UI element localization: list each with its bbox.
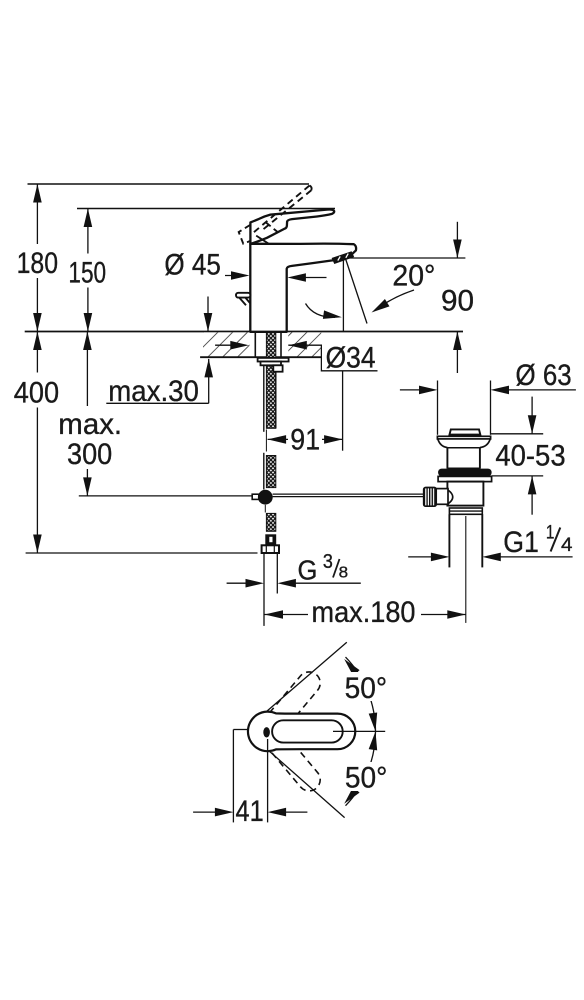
svg-text:G: G bbox=[298, 554, 318, 585]
pop-up horizontal rod to drain bbox=[273, 493, 424, 495]
dimension 41 extension line left bbox=[232, 730, 234, 823]
svg-text:300: 300 bbox=[67, 438, 112, 471]
hose centerline below ball bbox=[264, 505, 266, 513]
reference line at hose end (400) bbox=[26, 552, 258, 554]
label d34 bbox=[322, 344, 378, 369]
hose centerline at break bbox=[265, 430, 267, 452]
dimension 90 upper segment bbox=[453, 222, 462, 258]
label 50deg upper bbox=[341, 672, 391, 701]
deck top line bbox=[25, 331, 463, 333]
svg-text:50°: 50° bbox=[345, 762, 388, 795]
pop-up pull rod knob bbox=[236, 293, 250, 298]
dimension max.180 bbox=[265, 610, 466, 619]
drain flange top bbox=[437, 436, 490, 439]
dashed block edge bbox=[266, 223, 280, 235]
dimension 40-53 upper arrow bbox=[528, 397, 537, 434]
faucet body and spout bbox=[250, 244, 356, 332]
dimension 41 arrows bbox=[193, 808, 307, 817]
top view: dashed handle position lower bbox=[262, 727, 324, 795]
drain tailpipe right bbox=[481, 514, 483, 567]
dashed lever tip bbox=[310, 186, 312, 191]
dimension 41 extension line right bbox=[267, 739, 269, 822]
extension line from d34 label to 91 dimension bbox=[342, 371, 344, 451]
angle arc with arrow bbox=[306, 304, 343, 322]
hose nut bbox=[262, 545, 279, 553]
dimension d34 left arrow bbox=[215, 341, 249, 350]
top view: 50deg line upper bbox=[267, 642, 347, 711]
svg-text:180: 180 bbox=[17, 247, 58, 280]
dimension d63 arrows bbox=[400, 386, 576, 395]
drain: d63 extension line right bbox=[490, 381, 492, 435]
hose bottom braid segment bbox=[266, 513, 275, 531]
dimension d34 right arrow and leader bbox=[288, 341, 377, 371]
drain flange taper right bbox=[480, 439, 490, 448]
mounting nut step bbox=[261, 362, 282, 366]
hose thread right / extension line bbox=[276, 553, 278, 594]
40-53 extension line lower bbox=[492, 475, 544, 477]
top view: centerline right segment bbox=[333, 730, 385, 732]
dimension max.30 leader below deck bbox=[106, 359, 213, 403]
svg-text:90: 90 bbox=[441, 285, 474, 318]
deck hatch right bbox=[288, 332, 321, 357]
drain knob collar bbox=[436, 489, 448, 505]
drain ball housing bulge bbox=[448, 490, 453, 504]
vertical spout reach line bbox=[342, 260, 344, 331]
dimension d45 left arrow bbox=[225, 271, 250, 280]
hose lower segment braid bbox=[266, 456, 275, 488]
wire: top reference line (180) bbox=[28, 183, 310, 185]
dimension 180: vertical line with arrows bbox=[33, 184, 42, 332]
drain seal plate bbox=[438, 476, 492, 481]
hose tube line right in hole bbox=[280, 332, 282, 358]
dimension 91 bbox=[268, 435, 343, 444]
deck bottom line bbox=[200, 356, 321, 358]
mounting tab bbox=[273, 365, 282, 371]
dimension G1 1/4 arrows bbox=[408, 553, 572, 562]
svg-text:max.30: max.30 bbox=[108, 375, 199, 408]
shank outer line left below deck bbox=[263, 357, 265, 432]
hose lower segment left line bbox=[263, 453, 265, 490]
svg-text:91: 91 bbox=[290, 424, 320, 457]
svg-text:8: 8 bbox=[339, 564, 349, 581]
spout outlet reference line bbox=[349, 257, 466, 259]
top view: 50deg line lower bbox=[268, 750, 345, 818]
drain bottom band bbox=[449, 508, 482, 514]
lever raised position (dashed) lower edge bbox=[263, 190, 311, 229]
supply hose braid column bbox=[266, 332, 275, 429]
top view: upper angle arc bbox=[341, 656, 380, 732]
svg-text:G1: G1 bbox=[503, 526, 539, 559]
svg-text:max.180: max.180 bbox=[312, 596, 416, 629]
wire: second reference line (150) bbox=[77, 208, 335, 210]
hose end fitting bbox=[265, 534, 276, 544]
dimension max.30 arrow above deck bbox=[204, 297, 213, 332]
svg-text:400: 400 bbox=[14, 377, 59, 410]
shank outer line right below deck bbox=[275, 357, 277, 428]
top view: pivot dot bbox=[263, 727, 270, 737]
svg-text:3: 3 bbox=[323, 551, 333, 573]
svg-text:Ø34: Ø34 bbox=[326, 341, 376, 374]
label 50deg lower bbox=[342, 762, 392, 791]
svg-text:Ø 63: Ø 63 bbox=[516, 359, 572, 392]
drain: d63 extension line left bbox=[437, 381, 439, 435]
handle lever bbox=[250, 209, 334, 243]
top view: centerline left stub bbox=[233, 729, 248, 731]
dimension 90 lower segment bbox=[453, 332, 462, 374]
dimension max.300 vertical line bbox=[83, 332, 92, 496]
aerator bbox=[332, 251, 355, 264]
drain tailpipe left bbox=[448, 514, 450, 567]
40-53 extension line upper bbox=[491, 433, 543, 435]
rod ball joint bbox=[258, 490, 273, 505]
dimension 150: vertical line with arrows bbox=[84, 209, 93, 332]
svg-text:4: 4 bbox=[561, 535, 573, 556]
neck diagonal line bbox=[256, 236, 269, 245]
drain flange taper left bbox=[438, 439, 448, 448]
rod end stub bbox=[252, 494, 259, 499]
top view: handle slot bbox=[272, 720, 343, 742]
drain neck line bbox=[447, 447, 480, 449]
drain o-ring seal bbox=[438, 469, 492, 477]
hose tube line left in hole bbox=[254, 332, 256, 358]
leader arrow from 20deg to stream line bbox=[369, 290, 414, 316]
drain knurled knob bbox=[424, 488, 437, 507]
svg-text:150: 150 bbox=[68, 256, 106, 289]
svg-text:20°: 20° bbox=[392, 260, 435, 293]
deck hatch left bbox=[203, 332, 250, 357]
svg-text:max.: max. bbox=[58, 408, 122, 441]
dimension d45 right arrow bbox=[287, 273, 326, 282]
svg-text:50°: 50° bbox=[345, 672, 388, 705]
drain valve body bbox=[447, 482, 483, 506]
drain centerline bbox=[465, 516, 467, 623]
top view: lower angle arc bbox=[341, 731, 380, 807]
svg-text:Ø 45: Ø 45 bbox=[164, 249, 220, 282]
top view: handle outline bbox=[248, 712, 355, 752]
top view: dashed handle position upper bbox=[262, 667, 324, 735]
water stream line 20deg bbox=[346, 260, 367, 324]
svg-text:41: 41 bbox=[236, 795, 264, 828]
dimension G 3/8 arrows bbox=[227, 579, 361, 588]
drain cylinder bbox=[446, 448, 448, 469]
svg-text:1: 1 bbox=[546, 523, 555, 544]
mounting washer bbox=[258, 358, 289, 362]
label 40-53 bbox=[492, 443, 570, 467]
hose thread left / extension line bbox=[263, 553, 265, 626]
lever raised position (dashed) upper edge bbox=[252, 186, 309, 234]
drain plug knob bbox=[450, 429, 481, 434]
svg-text:40-53: 40-53 bbox=[495, 440, 565, 473]
dashed pivot block bbox=[239, 225, 251, 244]
pop-up rod reference line (left) bbox=[79, 495, 258, 497]
dimension 40-53 lower arrow bbox=[528, 476, 537, 515]
dimension 400 vertical line bbox=[33, 332, 42, 554]
